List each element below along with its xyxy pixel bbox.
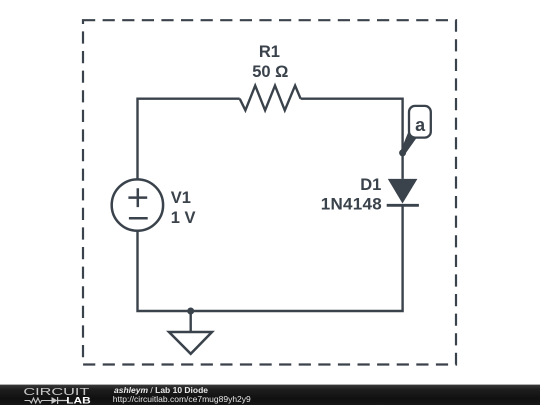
diode D1 cathode bar [387,204,419,207]
svg-text:a: a [415,115,426,135]
wire: left vertical + top horizontal to resistor R1 left terminal [138,99,240,180]
wire: ground stub [189,311,191,332]
ground symbol [169,332,212,354]
wire: diode D1 cathode down, bottom return wire, up to V1 negative terminal [138,205,403,311]
node a junction dot [399,149,406,156]
svg-text:1 V: 1 V [171,209,196,227]
svg-text:R1: R1 [259,43,280,61]
svg-text:50 Ω: 50 Ω [252,63,288,81]
resistor R1 [240,86,301,111]
voltage source V1 body [112,179,163,230]
diode D1 anode triangle [388,179,418,204]
footer bar [0,385,540,405]
svg-text:LAB: LAB [66,396,91,405]
svg-text:1N4148: 1N4148 [321,195,382,214]
node a callout box [409,106,431,138]
wire: resistor R1 right terminal to top-right corner, down to diode D1 anode [301,99,403,179]
CircuitLab logo diode glyph [52,397,58,404]
V1 minus sign [129,217,148,220]
CircuitLab logo wire and resistor glyph [25,398,52,403]
schematic boundary (dashed selection rectangle) [83,20,456,364]
node a callout pointer [401,132,417,155]
svg-text:http://circuitlab.com/ce7mug89: http://circuitlab.com/ce7mug89yh2y9 [113,394,251,404]
V1 plus sign [128,188,147,207]
ground junction dot [187,308,194,315]
svg-text:V1: V1 [171,189,191,207]
svg-text:D1: D1 [360,176,381,194]
